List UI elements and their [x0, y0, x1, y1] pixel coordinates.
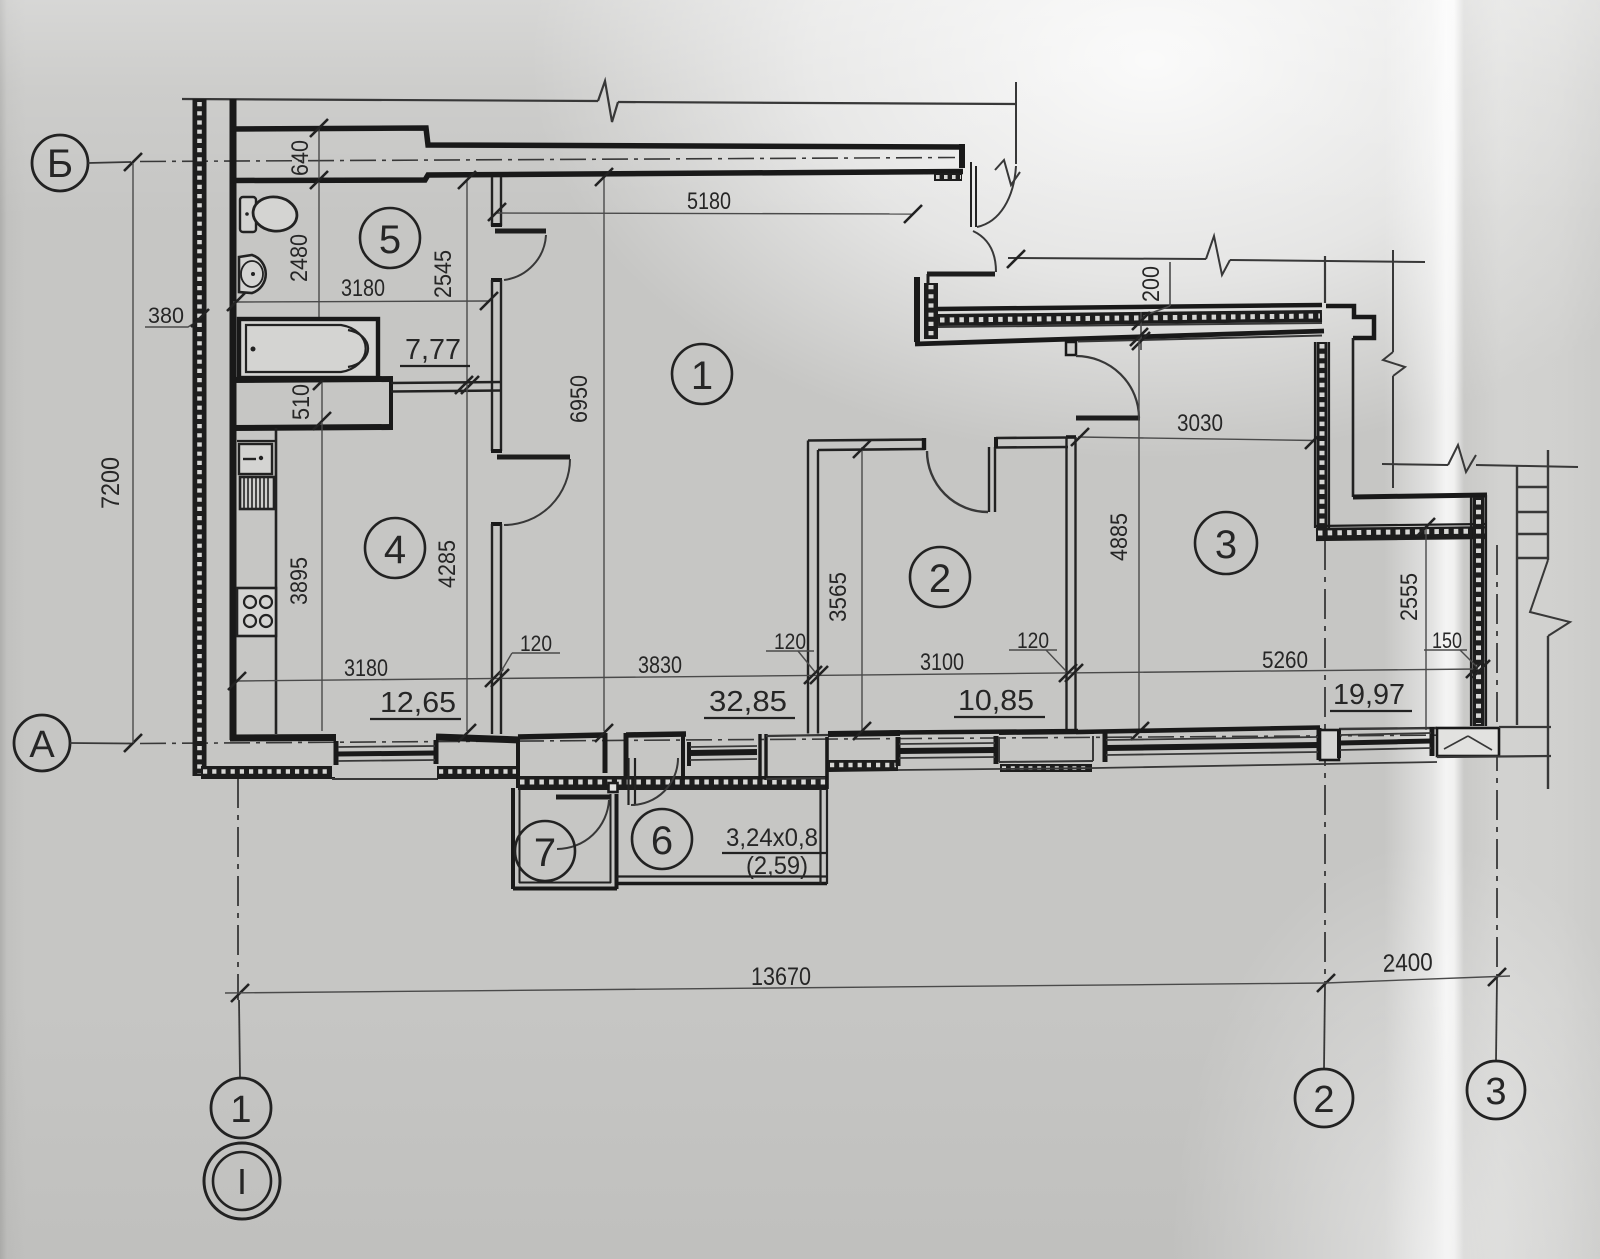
window W6 room3 — [1076, 728, 1320, 763]
svg-text:3030: 3030 — [1177, 410, 1223, 437]
svg-text:3: 3 — [1215, 523, 1237, 567]
dimension 3030 — [1078, 410, 1316, 441]
svg-text:32,85: 32,85 — [709, 686, 787, 718]
svg-text:3830: 3830 — [638, 652, 682, 679]
room label 3 — [1195, 512, 1257, 574]
svg-text:2555: 2555 — [1396, 573, 1423, 621]
room label 5 — [360, 208, 420, 268]
svg-text:5: 5 — [379, 218, 401, 262]
bathtub — [239, 319, 378, 378]
section mark I double circle — [204, 1143, 280, 1219]
stair bottom slab lines — [1437, 727, 1551, 757]
dimension 13670 — [225, 963, 1326, 993]
partition room1-room2 — [808, 441, 818, 734]
stair landing line with break — [1382, 445, 1578, 472]
window W3 mullion — [760, 734, 766, 780]
right corridor wall upper part — [1324, 256, 1326, 303]
kitchen sink — [239, 444, 272, 474]
svg-text:13670: 13670 — [751, 963, 811, 991]
bottom wall hatch pier A — [201, 766, 335, 778]
tick partition room1-2 — [804, 666, 828, 684]
svg-text:3180: 3180 — [341, 275, 385, 302]
dimension 6950 — [566, 176, 604, 731]
room 3 entry door swing arc — [1076, 356, 1139, 418]
axis 2 line — [1324, 540, 1325, 1069]
axis A tick — [124, 734, 142, 752]
wall edge right of pilaster — [1353, 338, 1487, 497]
svg-text:2: 2 — [929, 557, 951, 601]
bay right edge — [825, 737, 829, 789]
axis 1 tick — [231, 984, 249, 1002]
left wall inner face — [230, 99, 237, 740]
corridor upper right line with break — [1008, 236, 1425, 275]
dimension 200 — [1138, 262, 1170, 350]
svg-text:120: 120 — [1017, 628, 1049, 653]
room 2 top wall right segment — [996, 437, 1068, 448]
svg-text:10,85: 10,85 — [958, 685, 1034, 717]
svg-text:7,77: 7,77 — [405, 334, 461, 366]
svg-text:1: 1 — [230, 1089, 251, 1131]
dimension 4285 — [434, 384, 467, 731]
room label 7 — [515, 821, 575, 881]
kitchen stove 4 burners — [237, 588, 276, 636]
svg-text:200: 200 — [1138, 266, 1165, 302]
svg-text:2: 2 — [1313, 1079, 1334, 1121]
window W3 sill box — [766, 735, 828, 779]
right outer wall hatched (lower vertical) — [1471, 495, 1486, 726]
toilet — [240, 194, 299, 234]
window W4 room2 — [898, 736, 996, 766]
area label 10,85 — [954, 685, 1045, 717]
svg-text:7: 7 — [534, 831, 556, 875]
svg-text:12,65: 12,65 — [380, 687, 456, 719]
room 2 door leaf — [989, 447, 995, 512]
dimension 640 — [287, 128, 319, 181]
vertical break line right — [1383, 250, 1405, 488]
pier block room3 window — [1320, 730, 1339, 760]
bay parapet wall face — [518, 735, 605, 737]
corridor south wall band — [915, 305, 1324, 344]
partition room2-room3 — [1066, 437, 1076, 732]
dimension 3565 — [825, 447, 862, 731]
svg-text:5260: 5260 — [1262, 647, 1308, 674]
bathroom top wall lower face — [230, 172, 963, 181]
svg-text:3: 3 — [1485, 1071, 1506, 1113]
bathroom-kitchen thick wall — [230, 379, 393, 428]
dimension 380 label — [145, 303, 199, 328]
label 120 room4 partition — [499, 631, 560, 675]
door stop block room 7 — [609, 783, 618, 792]
svg-text:150: 150 — [1432, 628, 1462, 653]
svg-text:A: A — [29, 724, 55, 766]
axis A line — [70, 735, 1460, 744]
hatch dots under wall end — [934, 173, 962, 181]
room 2 top wall left segment — [808, 438, 925, 450]
wall stub left of corridor — [917, 277, 938, 342]
dimension 5180 — [496, 188, 913, 215]
tick partition room4 — [485, 669, 509, 687]
bottom wall inner face over windows right section — [898, 731, 1078, 733]
axis 2 circle — [1295, 1069, 1353, 1127]
axis 3 tick — [1488, 968, 1506, 986]
dimension 3180 bathroom — [233, 275, 488, 302]
bay hatch strip — [518, 776, 828, 789]
svg-text:5180: 5180 — [687, 188, 731, 215]
bottom dimension row line — [236, 669, 1478, 681]
dimension 2400 — [1326, 948, 1510, 983]
svg-text:510: 510 — [288, 384, 315, 420]
svg-text:3100: 3100 — [920, 649, 964, 676]
svg-text:Б: Б — [47, 142, 73, 186]
axis A circle — [14, 715, 70, 771]
window W1 outer sill line — [332, 778, 438, 780]
hall 6 door swing arc — [631, 758, 678, 805]
svg-text:I: I — [237, 1161, 247, 1202]
svg-text:4285: 4285 — [434, 540, 461, 588]
top outer line with break — [182, 81, 1016, 122]
axis 3 circle — [1467, 1061, 1525, 1119]
top wall right end cap — [959, 144, 965, 168]
label 120 room1-2 partition — [766, 629, 815, 672]
svg-text:4885: 4885 — [1106, 513, 1133, 561]
window W5 sill box — [999, 732, 1094, 772]
room 3 outer wall hatched (right vertical) — [1315, 342, 1329, 528]
hall 6 door leaf — [629, 758, 636, 805]
svg-text:(2,59): (2,59) — [746, 852, 808, 880]
bottom wall inner face pier A — [230, 734, 336, 742]
entrance door swing arc — [977, 166, 1016, 227]
vestibule door leaf — [927, 274, 995, 284]
axis 2 tick — [1317, 974, 1335, 992]
partition room1 left upper stub — [491, 177, 502, 226]
entrance door leaf (corridor) — [971, 162, 976, 227]
axis B circle — [32, 135, 88, 191]
hall 6 bottom wall — [617, 789, 827, 884]
room label 6 — [632, 809, 692, 869]
washbasin — [239, 255, 266, 293]
axis 1 line — [238, 778, 240, 1078]
svg-text:6: 6 — [651, 819, 673, 863]
label 150 wall — [1424, 628, 1477, 667]
svg-text:7200: 7200 — [97, 457, 125, 509]
area label 12,65 — [370, 687, 461, 719]
kitchen appliance hatched — [240, 477, 274, 509]
window W1 kitchen — [336, 740, 436, 765]
label 120 room2-3 partition — [1009, 628, 1066, 671]
kitchen door swing arc — [504, 459, 570, 525]
svg-text:3565: 3565 — [825, 572, 852, 622]
outer sill line right section — [898, 762, 1437, 770]
svg-text:3180: 3180 — [344, 655, 388, 682]
corner block with diagonals — [1437, 728, 1499, 756]
svg-text:2400: 2400 — [1382, 948, 1433, 978]
svg-text:2480: 2480 — [286, 234, 313, 282]
stair flight — [1517, 450, 1570, 789]
room 3 outer wall hatched (horizontal jog) — [1316, 524, 1487, 540]
axis B tick — [124, 153, 142, 171]
svg-text:4: 4 — [384, 528, 406, 572]
balcony door jambs — [605, 733, 686, 776]
room 7 door leaf — [556, 795, 610, 800]
tick 4285 bottom — [458, 724, 476, 742]
bottom wall pier B — [436, 737, 520, 778]
axis B line — [88, 158, 955, 164]
svg-text:380: 380 — [148, 303, 184, 328]
room label 4 — [365, 518, 425, 578]
vestibule door swing arc — [973, 231, 996, 272]
dimension 3895 — [286, 422, 322, 731]
kitchen counter — [237, 428, 276, 734]
bottom wall hatch right of bay — [828, 760, 898, 771]
tick 3565 bottom — [853, 722, 871, 740]
left outer wall hatched strip — [194, 99, 206, 776]
tick wall 150 — [1466, 660, 1490, 678]
pilaster block top right — [1326, 306, 1374, 338]
svg-text:2545: 2545 — [430, 250, 457, 298]
room 2 door swing arc — [927, 451, 988, 512]
area label 7,77 — [400, 334, 470, 366]
bay room 7 walls — [513, 788, 617, 889]
svg-text:120: 120 — [520, 631, 552, 656]
partition room1 left middle — [491, 280, 502, 451]
room 3 entry door jamb block — [1066, 342, 1076, 355]
window size label 3,24x0,8 — [722, 824, 826, 880]
bay step down — [516, 737, 520, 788]
axis 3 line — [1496, 545, 1497, 1061]
dimension 510 — [288, 380, 322, 422]
dimension 4885 — [1106, 336, 1139, 731]
bottom wall inner face pier C — [828, 733, 900, 734]
kitchen door leaf — [497, 455, 570, 460]
tick 3180 left — [228, 672, 246, 690]
dimension 2480 — [286, 182, 319, 380]
bathroom door leaf — [495, 229, 546, 234]
corridor wall edge line above entrance — [1015, 82, 1017, 164]
lobby thin wall — [391, 382, 502, 392]
window W3 room1 glazed part — [683, 735, 757, 780]
axis 1 circle — [211, 1078, 271, 1138]
svg-text:3895: 3895 — [286, 557, 313, 605]
partition room1 left lower — [491, 524, 502, 734]
room 7 door swing arc — [557, 800, 609, 849]
room label 2 — [910, 547, 970, 607]
dimension 7200 vertical — [97, 163, 133, 743]
svg-text:640: 640 — [287, 140, 314, 176]
svg-text:1: 1 — [691, 354, 713, 398]
window W7 — [1339, 727, 1432, 758]
tick partition room2-3 — [1059, 664, 1083, 682]
svg-text:6950: 6950 — [566, 375, 593, 423]
room label 1 — [672, 344, 732, 404]
break symbol at wall end — [995, 160, 1020, 185]
area label 19,97 — [1330, 679, 1412, 711]
dimension 2545 — [430, 179, 467, 384]
dimension 2555 — [1396, 527, 1426, 730]
svg-text:19,97: 19,97 — [1333, 679, 1405, 711]
svg-text:3,24x0,8: 3,24x0,8 — [726, 824, 818, 852]
area label 32,85 — [704, 686, 795, 718]
tick 6950 bottom — [595, 724, 613, 742]
svg-text:120: 120 — [774, 629, 806, 654]
bathroom door swing arc — [504, 235, 546, 280]
room 3 entry door leaf — [1076, 416, 1140, 421]
bathroom top wall upper face — [230, 128, 963, 147]
